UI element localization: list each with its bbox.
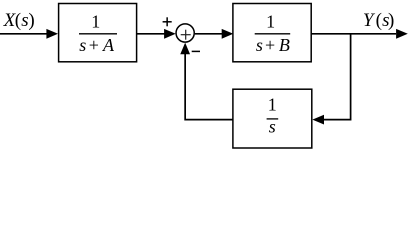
block G3 bbox=[233, 89, 312, 148]
svg-text:1: 1 bbox=[268, 95, 277, 115]
svg-text:X(s): X(s) bbox=[3, 10, 35, 31]
svg-text:Y(s): Y(s) bbox=[363, 10, 394, 31]
svg-text:s+B: s+B bbox=[256, 35, 290, 55]
summing junction U1 bbox=[176, 24, 194, 42]
value 1/(s+B) of block G2 bbox=[255, 12, 291, 56]
svg-text:s+A: s+A bbox=[79, 35, 115, 55]
svg-text:1: 1 bbox=[91, 12, 100, 32]
wire: G1 output to summing junction bbox=[137, 29, 176, 39]
minus sign label at feedback input bbox=[192, 50, 200, 52]
value 1/(s+A) of block G1 bbox=[79, 12, 117, 56]
wire: G3 output up into summing junction bbox=[180, 43, 233, 120]
wire: G2 output to Y(s) with takeoff node bbox=[311, 29, 408, 39]
plus sign label at summing input bbox=[163, 17, 172, 26]
value 1/s of block G3 bbox=[267, 95, 279, 137]
wire: input into block G1 bbox=[0, 29, 58, 39]
wire: feedback takeoff down and into block G3 bbox=[312, 34, 350, 125]
block G1 bbox=[59, 4, 137, 62]
plus sign inside summing junction bbox=[181, 30, 191, 40]
wire: summing junction to block G2 bbox=[195, 29, 233, 39]
block G2 bbox=[233, 4, 311, 62]
svg-text:1: 1 bbox=[266, 12, 275, 32]
svg-text:s: s bbox=[269, 117, 276, 137]
